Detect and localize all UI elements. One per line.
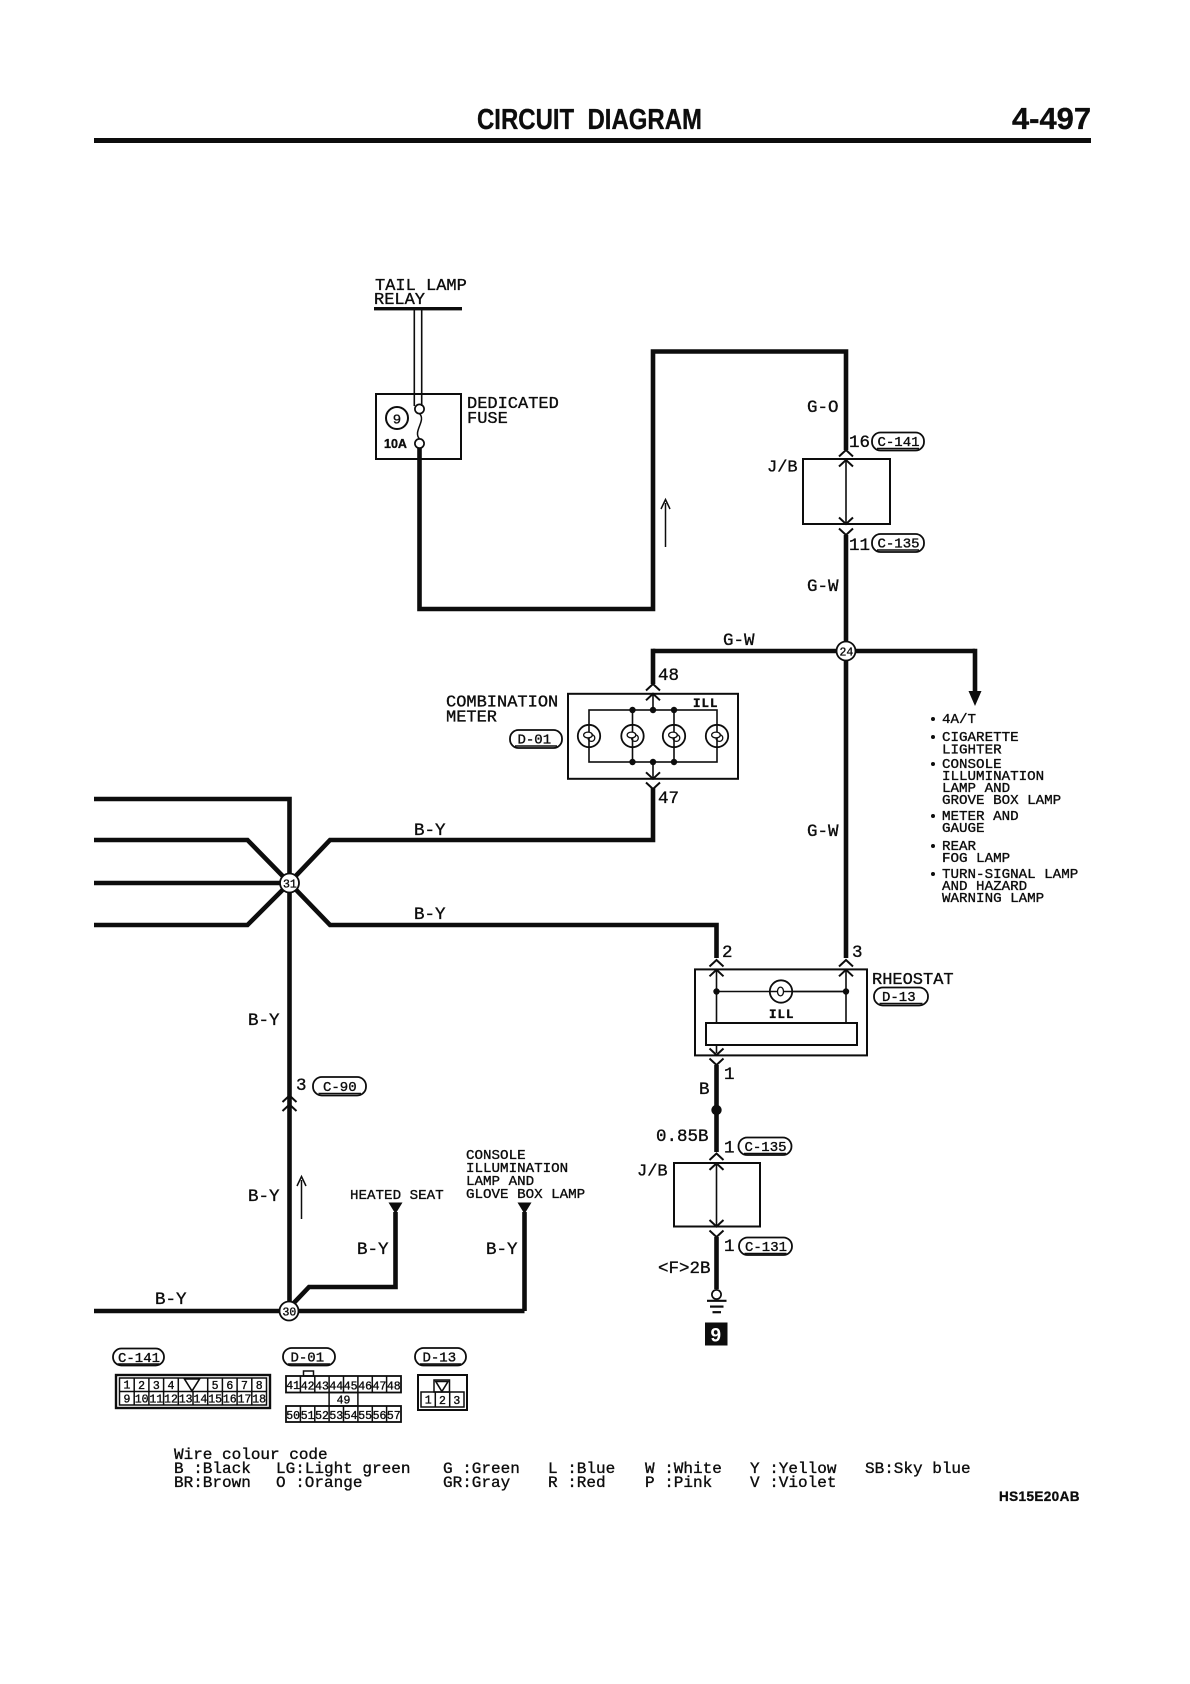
connector C-90 chevrons [283,1096,297,1112]
svg-text:43: 43 [315,1381,329,1394]
harness wire 3 [94,881,290,886]
connector tag C-141 [872,433,924,452]
junction dots [713,988,719,994]
illumination bulb 3 [663,725,685,747]
chevrons C-131 exit [710,1220,724,1237]
svg-text:48: 48 [387,1381,401,1394]
svg-text:3: 3 [453,1395,460,1408]
wire: heated seat branch [290,1212,396,1308]
svg-text:56: 56 [373,1410,387,1423]
connector tag C-131 [739,1238,792,1257]
svg-text:<F>2B: <F>2B [658,1259,711,1279]
svg-text:41: 41 [286,1380,300,1393]
illumination bulb 1 [578,725,600,747]
svg-text:53: 53 [329,1410,343,1423]
svg-text:WARNING LAMP: WARNING LAMP [942,891,1044,907]
svg-text:13: 13 [179,1394,193,1407]
wire: bottom B-Y bus [94,1309,525,1314]
current direction arrow [665,503,667,547]
junction 31 [280,874,299,893]
current direction arrow (trunk) [301,1180,303,1219]
svg-text:49: 49 [337,1395,351,1408]
svg-text:4: 4 [168,1380,175,1393]
svg-text:9: 9 [711,1326,722,1347]
svg-text:4-497: 4-497 [1012,101,1091,136]
chevrons pin 2 [710,960,724,976]
heated seat terminal triangle [389,1203,403,1215]
svg-text:47: 47 [373,1381,387,1394]
svg-text:12: 12 [164,1394,178,1407]
chevrons pin 47 [646,772,660,789]
svg-text:J/B: J/B [637,1163,668,1182]
svg-text:J/B: J/B [767,459,798,478]
ground reference 9 [705,1323,728,1346]
console terminal triangle [518,1203,532,1215]
svg-text:P :Pink: P :Pink [645,1474,712,1492]
wire: J/B pin 11 to rheostat pin 3 [844,535,849,958]
svg-text:ILL: ILL [769,1008,795,1022]
svg-text:3: 3 [153,1380,160,1393]
wire: bus to accessory list arrow [973,649,978,692]
connector tag C-135 lower [739,1138,792,1157]
illumination bulb 4 [706,725,728,747]
ground symbol [712,1290,721,1299]
wire: G-W distribution bus [653,649,975,654]
svg-text:B: B [699,1080,710,1100]
svg-text:B-Y: B-Y [248,1011,280,1031]
svg-text:55: 55 [358,1410,372,1423]
svg-text:HS15E20AB: HS15E20AB [999,1489,1080,1504]
svg-text:1: 1 [124,1380,131,1393]
junction block J/B upper [803,459,890,524]
rheostat resistance element [706,1023,857,1045]
wire: console branch [522,1212,527,1311]
svg-text:9: 9 [393,413,401,429]
J/B internal wire [716,1165,718,1225]
svg-text:54: 54 [344,1410,358,1423]
svg-text:GR:Gray: GR:Gray [443,1474,511,1492]
svg-text:G-O: G-O [807,398,839,418]
junction 30 [280,1302,299,1321]
svg-text:4A/T: 4A/T [942,712,976,728]
harness wire 1 + trunk to junction 30 [94,799,290,1302]
svg-text:METER: METER [446,709,497,728]
svg-text:B-Y: B-Y [357,1240,389,1260]
svg-text:6: 6 [226,1380,233,1393]
svg-text:B-Y: B-Y [486,1240,518,1260]
svg-text:1: 1 [724,1237,735,1257]
svg-text:2: 2 [439,1395,446,1408]
svg-text:10A: 10A [384,437,407,451]
svg-text:48: 48 [658,666,679,686]
svg-text:HEATED SEAT: HEATED SEAT [350,1188,444,1204]
wire: C-131 to ground [714,1237,719,1289]
svg-text:G-W: G-W [807,577,839,597]
chevrons pin 3 [839,960,853,976]
svg-text:45: 45 [344,1381,358,1394]
junction block J/B lower [674,1163,760,1227]
connector tag D-01 (layout) [283,1348,335,1367]
lamp branch wires [633,710,675,762]
dedicated fuse box [376,394,461,459]
svg-text:42: 42 [301,1381,315,1394]
svg-text:B-Y: B-Y [248,1187,280,1207]
svg-text:51: 51 [301,1410,315,1423]
connector C-141 pin grid [116,1375,270,1408]
svg-text:31: 31 [283,879,297,892]
svg-text:3: 3 [296,1076,307,1096]
svg-text:10: 10 [135,1394,149,1407]
connector tag C-141 (layout) [113,1349,164,1368]
svg-text:ILL: ILL [693,697,719,711]
accessory list [931,712,1078,907]
svg-text:5: 5 [212,1380,219,1393]
svg-text:11: 11 [849,536,870,556]
svg-text:1: 1 [724,1139,735,1159]
connector tag D-01 [510,730,562,749]
harness wire 2 [94,840,290,883]
svg-text:8: 8 [256,1380,263,1393]
svg-text:GAUGE: GAUGE [942,821,985,837]
svg-text:50: 50 [286,1410,300,1423]
wire: fuse to J/B pin 16 [420,352,847,610]
svg-text:B-Y: B-Y [414,821,446,841]
wire colour code legend [174,1446,971,1492]
svg-text:B-Y: B-Y [155,1290,187,1310]
junction dots bottom [629,759,635,765]
svg-text:V :Violet: V :Violet [750,1474,836,1492]
chevrons pin 1 [710,1049,724,1066]
svg-text:O :Orange: O :Orange [276,1474,362,1492]
connector tag D-13 [874,988,928,1007]
svg-text:52: 52 [315,1410,329,1423]
wire: pin 47 to junction 31 [290,788,654,883]
svg-text:SB:Sky blue: SB:Sky blue [865,1460,971,1478]
svg-text:7: 7 [241,1380,248,1393]
rheostat bulb [770,980,846,1002]
svg-text:44: 44 [329,1381,343,1394]
svg-text:16: 16 [849,433,870,453]
svg-text:2: 2 [138,1380,145,1393]
tail lamp relay bus bar [374,307,462,310]
chevrons C-135 entry [710,1154,724,1170]
chevrons pin 16 [839,450,853,467]
wire: bus to combination meter pin 48 [651,649,656,684]
svg-text:R :Red: R :Red [548,1474,606,1492]
svg-text:24: 24 [840,647,854,660]
svg-text:BR:Brown: BR:Brown [174,1474,251,1492]
connector D-13 pin grid [418,1375,467,1410]
wire: rheostat pin 1 to J/B [714,1065,719,1152]
relay prong wires [414,310,421,406]
connector D-01 pin grid [286,1371,401,1422]
svg-text:1: 1 [724,1065,735,1085]
svg-text:57: 57 [387,1410,401,1423]
fuse number circle 9 [386,407,408,429]
splice dot [711,1105,721,1115]
junction dots top [629,707,635,713]
svg-text:0.85B: 0.85B [656,1127,709,1147]
svg-text:18: 18 [252,1394,266,1407]
svg-text:G-W: G-W [723,631,755,651]
svg-text:FOG LAMP: FOG LAMP [942,851,1010,867]
chevrons pin 11 [839,518,853,536]
combination meter box [568,694,738,779]
svg-text:1: 1 [425,1395,432,1408]
svg-text:14: 14 [193,1394,207,1407]
svg-text:3: 3 [852,943,863,963]
connector tag C-90 [313,1077,366,1096]
harness wire 4 [94,883,290,925]
connector tag C-135 [872,534,924,553]
svg-text:47: 47 [658,789,679,809]
svg-text:GROVE BOX LAMP: GROVE BOX LAMP [942,793,1061,809]
svg-text:15: 15 [208,1394,222,1407]
rheostat box [695,969,867,1055]
svg-text:11: 11 [149,1394,163,1407]
connector tag D-13 (layout) [415,1348,466,1367]
wire: junction 31 to rheostat pin 2 [290,883,717,958]
junction 24 [837,642,856,661]
svg-text:G-W: G-W [807,822,839,842]
svg-text:9: 9 [124,1394,131,1407]
svg-text:46: 46 [358,1381,372,1394]
svg-text:2: 2 [722,943,733,963]
svg-text:B-Y: B-Y [414,905,446,925]
chevrons pin 48 [646,684,660,700]
svg-text:FUSE: FUSE [467,410,508,429]
pin 48 feed into lamps [652,694,654,779]
rheostat internal wires [717,971,847,1023]
svg-text:16: 16 [223,1394,237,1407]
svg-text:30: 30 [283,1307,297,1320]
J/B internal wire [845,461,847,523]
fuse element F9 [415,404,424,413]
svg-text:GLOVE BOX LAMP: GLOVE BOX LAMP [466,1187,585,1203]
illumination bulb 2 [621,725,643,747]
svg-text:17: 17 [238,1394,252,1407]
meter lamp group inner box [589,710,717,762]
wire: element to pin 1 [716,1045,718,1053]
header rule [94,138,1091,143]
svg-text:CIRCUIT DIAGRAM: CIRCUIT DIAGRAM [477,104,702,136]
